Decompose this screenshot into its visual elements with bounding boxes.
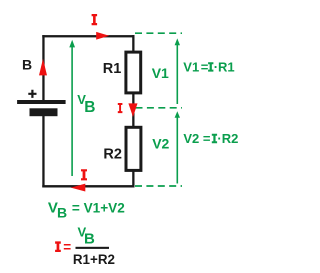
wire top horizontal [42,35,134,37]
label I mid (serif I-beam) [118,103,123,113]
svg-text:V2: V2 [152,136,169,152]
current arrow bottom (left) [71,184,86,192]
svg-text:V2 =: V2 = [183,131,211,146]
dashed line top [135,32,182,34]
current arrow left wire (up) [39,59,47,76]
V2 arrow (green, up) [176,117,178,184]
svg-text:=: = [201,60,209,75]
formula I = (red) [55,241,61,252]
current arrow mid (down) [128,103,137,117]
wire between R1 and R2 [132,94,134,126]
svg-text:V1: V1 [152,65,169,81]
svg-text:B: B [22,56,32,72]
svg-text:R1+R2: R1+R2 [73,252,115,267]
label I top (serif I-beam) [92,14,98,25]
wire right branch top [132,35,134,51]
battery B bottom plate [30,108,58,116]
battery B top plate [17,100,66,104]
resistor R1 [126,52,141,93]
wire left vertical upper [42,35,44,100]
svg-text:·R2: ·R2 [217,131,238,146]
label I bottom (serif I-beam) [81,169,87,180]
svg-text:= V1+V2: = V1+V2 [72,201,125,216]
fraction bar [76,247,110,249]
dashed line middle [136,107,183,109]
battery plus sign [28,90,36,98]
VB arrow (green, up) [71,47,73,177]
resistor R2 [126,127,141,170]
svg-text:B: B [57,204,67,220]
wire below R2 [132,172,134,187]
current arrow top (I right) [96,32,109,40]
svg-text:B: B [84,99,95,116]
wire bottom horizontal [42,185,134,187]
svg-text:R2: R2 [103,147,122,163]
svg-text:=: = [63,240,71,255]
dashed line bottom [135,185,182,187]
svg-text:V1: V1 [183,60,199,75]
wire left vertical lower [42,115,44,187]
svg-text:B: B [84,231,95,248]
svg-text:R1: R1 [103,61,122,77]
V1 arrow (green, up) [176,45,178,105]
svg-text:·R1: ·R1 [214,60,235,75]
